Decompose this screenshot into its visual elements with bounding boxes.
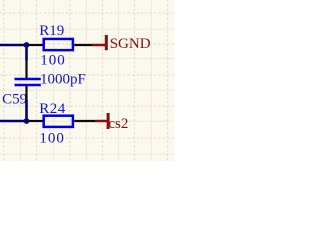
svg-text:100: 100 [40,53,65,69]
wire cap to node B [25,100,28,121]
port cs2 lead [95,120,108,123]
wire left to node A [0,44,27,47]
sheet background [0,0,174,161]
svg-text:R19: R19 [39,23,64,39]
capacitor C59 bottom plate [15,84,41,87]
svg-text:R24: R24 [39,101,66,117]
port SGND lead [92,44,106,47]
port cs2 bar [107,113,110,129]
svg-text:C59: C59 [2,92,27,108]
svg-text:cs2: cs2 [108,116,128,132]
port SGND bar [105,35,108,50]
wire node A down [25,45,28,61]
svg-text:SGND: SGND [110,36,151,52]
svg-text:100: 100 [39,131,65,147]
resistor R24 body [44,116,73,127]
capacitor C59 pin 1 [25,60,27,78]
node B junction [24,118,30,124]
resistor R24 pin 1 [28,120,44,122]
capacitor C59 top plate [15,78,41,81]
svg-text:1000pF: 1000pF [40,72,86,88]
resistor R24 pin 2 [74,120,95,122]
wire left to node B [0,120,27,123]
resistor R19 body [44,39,73,50]
resistor R19 pin 1 [28,44,44,46]
capacitor C59 pin 2 [25,86,27,100]
resistor R19 pin 2 [74,44,92,46]
node A junction [24,42,30,48]
